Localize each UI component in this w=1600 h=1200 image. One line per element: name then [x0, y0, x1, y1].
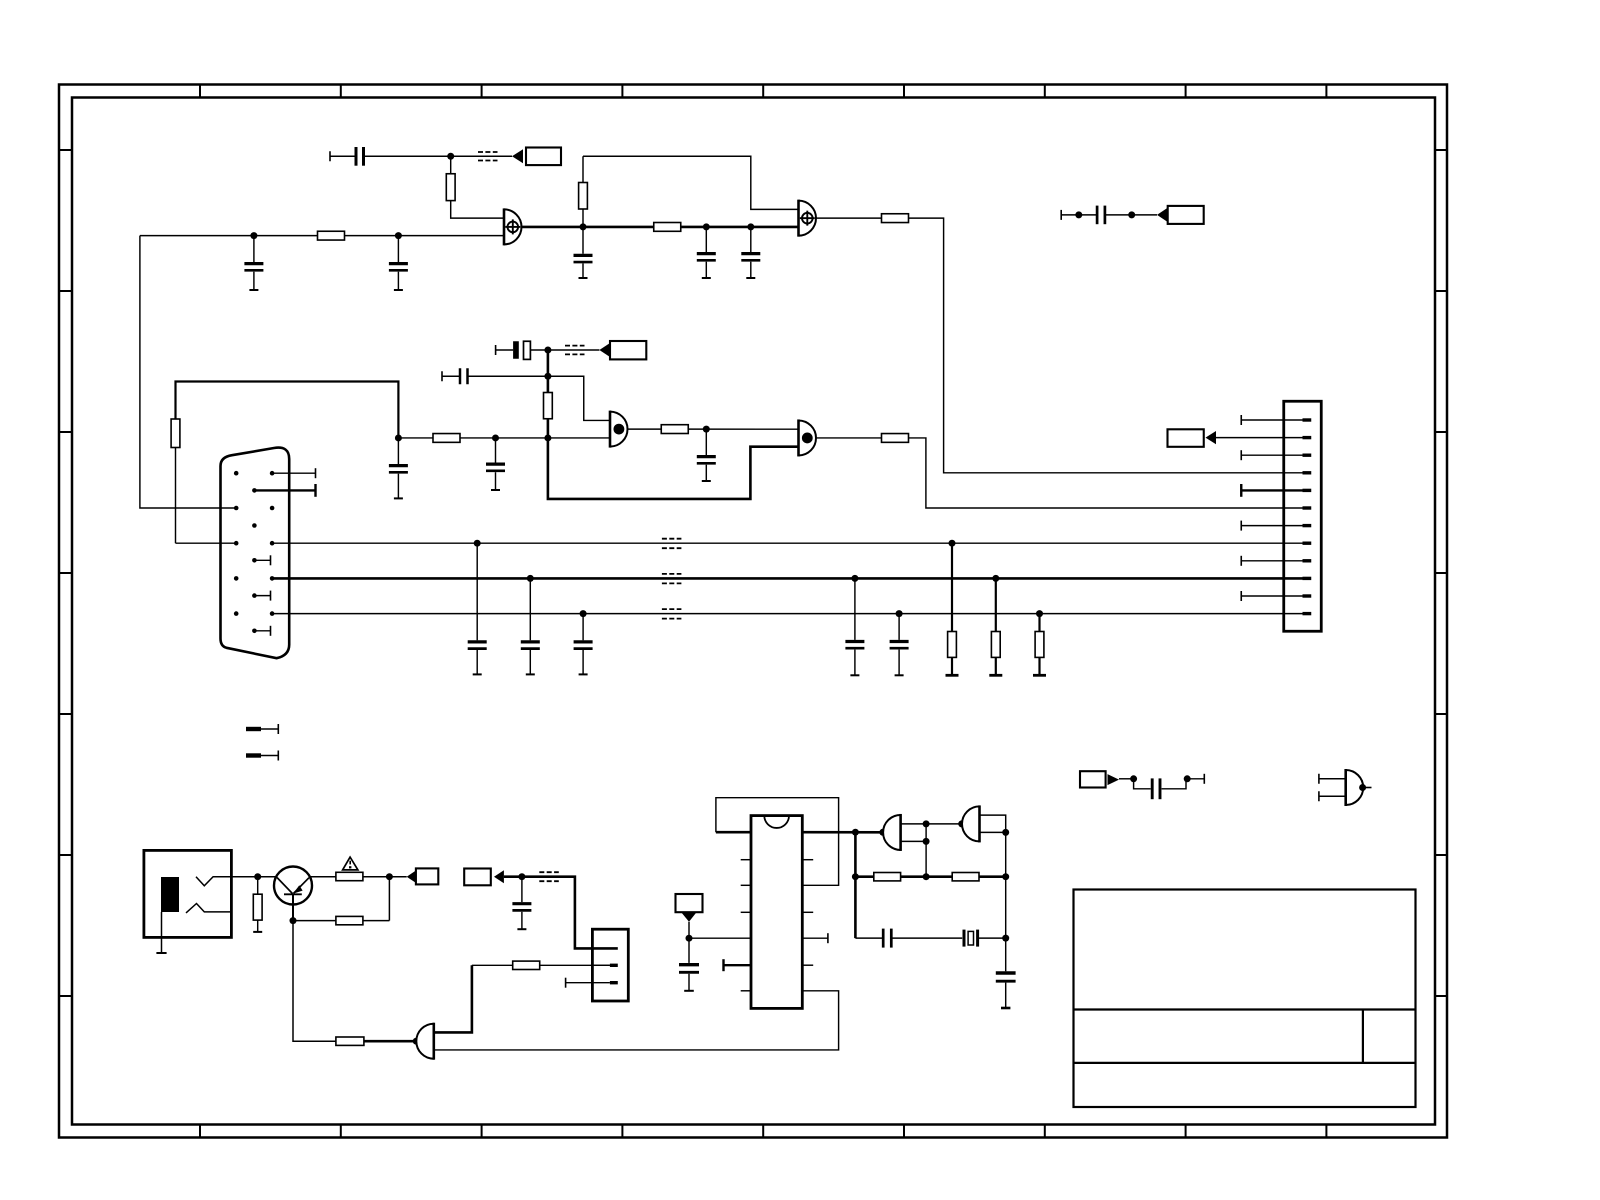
gate U4: [799, 419, 817, 456]
node junction: [703, 426, 710, 433]
port P5 box: [416, 868, 438, 884]
wire: [1119, 778, 1134, 780]
J2 pin 1 stub: [1241, 415, 1311, 425]
node junction: [474, 540, 481, 547]
resistor R10: [882, 434, 909, 443]
gate U8 mirrored: [962, 805, 980, 842]
gate U5 mirrored: [416, 1023, 433, 1060]
resistor R19: [874, 873, 901, 881]
wire: [451, 155, 512, 157]
resistor R11 vertical pull: [946, 543, 959, 675]
wire thick R17 to gate U5 output: [364, 1040, 416, 1043]
J3 lower contact: [186, 904, 231, 913]
IC pin L2 stub: [741, 859, 751, 861]
capacitor C13: [890, 614, 909, 676]
node junction: [1002, 829, 1009, 836]
node junction: [290, 917, 297, 924]
resistor R20: [952, 873, 979, 881]
node junction: [544, 347, 551, 354]
node junction: [580, 610, 587, 617]
J4 pin 2 dash: [592, 964, 617, 966]
port P8 box: [1080, 771, 1106, 787]
J1 pin dots column A: [234, 471, 239, 616]
IC U6 notch: [764, 816, 789, 828]
capacitor C1: [244, 236, 263, 290]
port P2 arrow: [1157, 208, 1168, 222]
wire thick P6 to connector J4 pin1: [504, 877, 618, 949]
IC pin L1 thick: [716, 831, 751, 834]
IC pin R5 wire with tick: [802, 933, 828, 943]
J2 pin 2 wire: [1216, 437, 1311, 439]
wire to port P5: [363, 876, 407, 878]
node junction: [395, 434, 402, 441]
J3 center pin bar: [161, 877, 179, 912]
capacitor C5: [741, 227, 760, 278]
wire vertical right column: [1005, 832, 1007, 938]
port P6 arrow: [494, 870, 504, 883]
J2 pin 5 stub thick: [1241, 484, 1311, 497]
mount pin MP1: [246, 724, 278, 734]
resistor R7 feedback vertical: [544, 393, 553, 419]
net label dashes D1: [478, 152, 498, 161]
frame zone ticks left: [59, 150, 72, 996]
capacitor C11: [574, 614, 593, 675]
mount pin MP2: [246, 751, 278, 761]
warning triangle: [343, 857, 358, 870]
wire U7 input A: [901, 823, 927, 825]
capacitor C8: [389, 438, 408, 498]
J2 pin 12 dash: [1284, 613, 1312, 615]
capacitor C19 series: [442, 368, 548, 384]
node junction: [1002, 873, 1009, 880]
wire feedback row1: [583, 156, 799, 209]
transistor Q1: [274, 867, 312, 921]
capacitor C4: [697, 227, 716, 278]
capacitor C9: [468, 543, 487, 674]
wire left drop to DB pin 3: [140, 236, 236, 508]
port P3 arrow: [599, 343, 610, 357]
wire to gate U1 input A: [451, 201, 504, 219]
capacitor C20 polarized series: [496, 341, 548, 359]
J2 pin 3 stub: [1241, 450, 1311, 460]
J4 pin 3 stub: [566, 978, 618, 988]
node junction: [518, 873, 525, 880]
capacitor C16: [996, 938, 1016, 1008]
IC pin L4 stub: [741, 911, 751, 913]
node junction: [492, 434, 499, 441]
node junction gate U7 output: [879, 829, 886, 836]
J2 pin 11 stub: [1241, 591, 1311, 601]
J1 pin 6 stub: [254, 555, 270, 565]
sheet border inner frame: [72, 98, 1435, 1125]
wire U8 output to U7 input A: [926, 823, 962, 825]
gate U9 spare: [1346, 769, 1364, 806]
capacitor C2: [389, 236, 408, 290]
node junction: [1075, 211, 1082, 218]
gate U1: [504, 208, 522, 245]
node junction: [395, 232, 402, 239]
port P4 arrow: [1206, 431, 1217, 444]
IC pin L5 wire: [689, 937, 751, 939]
resistor R15: [336, 872, 363, 880]
wire transistor to R15: [310, 876, 336, 878]
IC pin R6 stub: [802, 964, 813, 966]
connector J4 box: [592, 929, 628, 1001]
port P6 box: [464, 869, 491, 886]
capacitor C21 series: [855, 929, 962, 948]
gate U2: [799, 200, 817, 237]
node junction: [703, 223, 710, 230]
capacitor C18 series top-right: [1061, 206, 1157, 225]
capacitor C17 series top-left: [330, 147, 451, 166]
J3 ground lead: [156, 912, 166, 953]
J1 pin 8 stub: [254, 591, 270, 601]
wire U5 input A thick: [434, 965, 472, 1032]
node junction: [1184, 775, 1191, 782]
wire jack to transistor: [231, 876, 276, 878]
frame zone ticks right: [1435, 150, 1447, 996]
port P7 arrow down: [681, 912, 696, 922]
IC U6 body: [751, 816, 802, 1009]
IC pin R4 stub: [802, 911, 813, 913]
title block: [1074, 890, 1416, 1108]
bus wire net2 thick: [272, 577, 1284, 580]
node junction: [852, 829, 859, 836]
node junction: [527, 575, 534, 582]
power jack J3 box: [144, 850, 232, 937]
node junction: [1002, 935, 1009, 942]
resistor row wires thick: [855, 875, 1005, 878]
wire thick node column: [548, 350, 799, 499]
node junction: [896, 610, 903, 617]
capacitor C10: [521, 578, 540, 674]
node junction: [1128, 211, 1135, 218]
node junction: [544, 373, 551, 380]
capacitor C14: [512, 877, 531, 930]
resistor R13 vertical pull: [1033, 614, 1046, 676]
port P2 box: [1168, 206, 1204, 224]
node junction: [386, 873, 393, 880]
J2 pin 7 stub: [1241, 521, 1311, 531]
resistor R8: [433, 434, 460, 443]
wire U2 output to header pin 4: [816, 218, 1284, 473]
bus wire net3: [272, 613, 1284, 615]
wire emitter down to gate row: [293, 921, 336, 1042]
wire rail row1 lower: [140, 235, 504, 237]
node junction: [923, 820, 930, 827]
node junction: [1036, 610, 1043, 617]
port P1 box: [526, 148, 561, 166]
bus wire net1: [272, 542, 1284, 544]
resistor R17: [336, 1037, 364, 1045]
node junction: [992, 575, 999, 582]
capacitor C15: [679, 938, 699, 991]
node junction: [1130, 775, 1137, 782]
gate U7 mirrored: [883, 814, 901, 851]
IC pin L7 stub: [741, 990, 751, 992]
net label dashes D3: [539, 872, 559, 881]
node junction: [413, 1038, 420, 1045]
frame zone ticks bottom: [200, 1125, 1326, 1138]
port P1 arrow: [512, 149, 523, 163]
crystal Y1: [964, 930, 1006, 947]
wire: [548, 349, 600, 351]
resistor R6 vertical: [171, 419, 236, 543]
resistor R2 vertical: [446, 156, 455, 200]
J2 pin 6 dash: [1284, 507, 1312, 509]
J2 pin 10 dash thick: [1284, 577, 1312, 580]
wire P7 to IC: [688, 922, 690, 938]
wire to resistor R18: [472, 964, 513, 966]
net label dashes D5: [662, 574, 682, 584]
capacitor C22 series step: [1134, 778, 1186, 799]
capacitor C7: [697, 429, 716, 481]
wire thick oscillator left column: [854, 832, 857, 938]
U9 input B stub: [1319, 791, 1346, 801]
port P4 box: [1168, 429, 1204, 447]
wire IC to oscillator thick: [802, 831, 883, 834]
node junction: [949, 540, 956, 547]
J1 pin 10 stub: [254, 626, 270, 636]
J1 pin 1 stub: [272, 468, 315, 478]
node junction: [923, 838, 930, 845]
U9 output dot and stub: [1359, 784, 1371, 791]
capacitor C12: [845, 578, 864, 675]
wire U8 input B: [980, 831, 1006, 833]
resistor R1: [318, 231, 345, 240]
wire loop around top: [716, 798, 839, 886]
node junction: [686, 935, 693, 942]
port P5 arrow: [407, 871, 416, 883]
DE15 connector J1 outline: [221, 448, 290, 659]
port P7 box: [676, 894, 703, 912]
J1 pin dots column C: [270, 471, 275, 616]
node junction: [250, 232, 257, 239]
wire to gate U3 input A: [548, 376, 610, 420]
resistor R5: [882, 214, 909, 223]
wire U7 input B: [901, 840, 927, 842]
resistor R12 vertical pull: [989, 578, 1002, 675]
capacitor C3: [574, 227, 593, 278]
frame zone ticks top: [200, 85, 1326, 98]
node junction: [580, 223, 587, 230]
wire U8 input A: [980, 815, 1006, 832]
J1 pin dots column B: [252, 488, 257, 633]
wire U3 output: [628, 428, 799, 430]
node junction gate U8 output: [958, 820, 965, 827]
node junction: [852, 873, 859, 880]
J1 pin 2 stub thick: [254, 484, 315, 497]
wire thick left loop: [176, 382, 399, 438]
wire U5 input B long: [434, 991, 839, 1050]
node junction: [544, 434, 551, 441]
net label dashes D6: [662, 609, 682, 619]
wire U4 output to header pin 6: [816, 438, 1284, 508]
J2 pin 8 dash: [1284, 542, 1312, 544]
resistor R14 vertical: [253, 877, 262, 932]
header connector J2 box: [1284, 401, 1322, 631]
node junction: [851, 575, 858, 582]
resistor R9: [661, 425, 688, 434]
sheet border outer frame: [59, 85, 1447, 1138]
capacitor C6: [486, 438, 505, 490]
IC pin L6 stub thick with tick: [724, 959, 752, 971]
IC pin L3 stub: [741, 884, 751, 886]
port P3 box: [610, 341, 646, 359]
resistor R3: [654, 223, 681, 232]
IC pin R2 stub: [802, 859, 813, 861]
node junction: [747, 223, 754, 230]
node N1 junction: [447, 153, 454, 160]
J3 upper contact: [196, 877, 231, 886]
net label dashes D2: [565, 346, 585, 355]
resistor R4 feedback vertical: [579, 156, 588, 227]
gate U3: [610, 411, 628, 448]
wire vertical U7 inputs: [925, 824, 927, 877]
wire with tick: [1187, 774, 1204, 784]
resistor R16 feedback: [293, 877, 389, 925]
port P8 arrow right: [1108, 774, 1120, 785]
wire rail row2: [398, 437, 610, 439]
node junction: [923, 873, 930, 880]
resistor R18: [513, 961, 540, 969]
node junction: [254, 873, 261, 880]
net label dashes D4: [662, 539, 682, 549]
wire U1 output thick: [522, 226, 799, 229]
J2 pin 4 dash: [1284, 472, 1312, 474]
wire R18 to connector J4: [540, 964, 610, 966]
J2 pin 9 stub: [1241, 556, 1311, 566]
U9 input A stub: [1319, 774, 1346, 784]
